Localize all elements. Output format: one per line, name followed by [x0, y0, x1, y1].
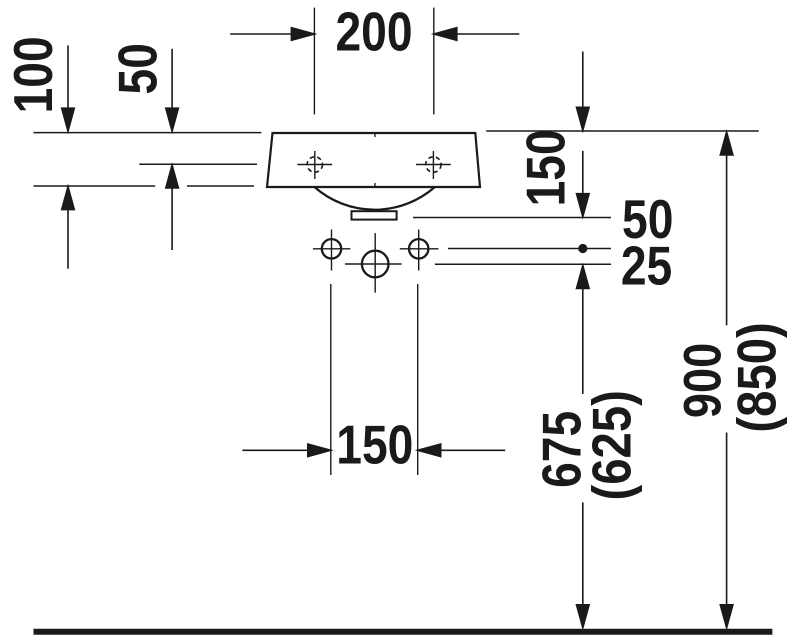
- dim 200 extension line right: [433, 8, 435, 115]
- drain hole middle (circle + cross): [345, 233, 402, 293]
- rim reference line right: [486, 130, 758, 132]
- dim 200 arrow left: [230, 28, 314, 41]
- drain / siphon outline: [352, 211, 397, 219]
- svg-text:100: 100: [2, 36, 64, 113]
- dim 150 bottom extension line left: [330, 284, 332, 475]
- dim 900 arrow down (at floor): [720, 433, 733, 628]
- floor line: [34, 629, 773, 635]
- dim 150 bottom arrow right: [418, 444, 506, 457]
- center tick top edge: [374, 133, 376, 137]
- faucet axis reference line: [139, 163, 257, 165]
- dim 150 right arrow bottom (down at 50-line): [577, 151, 590, 217]
- dim 150 right arrow top (down at rim line): [577, 52, 590, 131]
- fixing holes axis line right: [448, 248, 611, 250]
- sink outline (washbasin front view trapezoid): [267, 133, 480, 187]
- dim 100 arrow top (down at rim line): [62, 45, 75, 131]
- svg-text:(625): (625): [581, 390, 642, 500]
- svg-text:25: 25: [621, 234, 672, 296]
- fixing hole right (circle + cross): [400, 230, 439, 271]
- dim 900 arrow up (at rim line): [720, 132, 733, 325]
- dim 100 arrow bottom (up at basin bottom line): [62, 187, 75, 269]
- fixing hole left (circle + cross): [313, 230, 351, 271]
- svg-text:150: 150: [515, 129, 577, 206]
- center tick bottom edge: [374, 183, 376, 187]
- rim reference line left: [34, 132, 262, 134]
- svg-text:50: 50: [107, 43, 169, 94]
- dim 50 arrow top (down at rim line): [166, 49, 179, 131]
- svg-text:(850): (850): [726, 322, 787, 432]
- basin bowl arc: [315, 187, 435, 210]
- dim 150 bottom arrow left: [242, 444, 330, 457]
- dim 675 arrow up (at drain axis line): [577, 266, 590, 394]
- drain axis reference line right: [435, 263, 611, 265]
- 50 reference line (overflow level): [413, 217, 611, 219]
- svg-text:900: 900: [674, 343, 732, 418]
- svg-text:200: 200: [335, 1, 412, 63]
- svg-text:150: 150: [336, 413, 413, 475]
- basin bottom reference line (two segments): [34, 185, 156, 187]
- faucet hole mark right (cross + dashed circle): [416, 151, 451, 179]
- faucet hole mark left (cross + dashed circle): [297, 151, 332, 179]
- dim 200 extension line left: [313, 8, 315, 115]
- dim 675 arrow down (at floor): [577, 502, 590, 627]
- dim 150 bottom extension line right: [417, 284, 419, 475]
- dimension dot at fixing axis: [578, 244, 587, 253]
- dim 200 arrow right: [434, 28, 520, 41]
- dim 50 arrow bottom (up at faucet axis line): [166, 165, 179, 250]
